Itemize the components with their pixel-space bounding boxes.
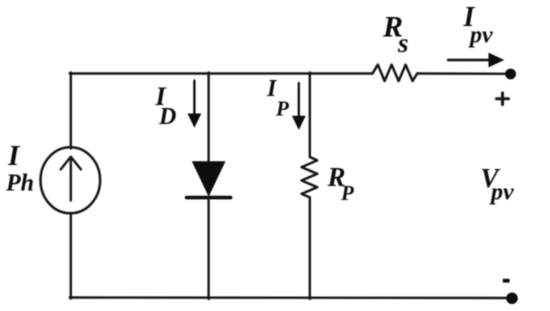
current arrow IP	[292, 83, 306, 130]
wire: Rp branch to bottom rail	[309, 197, 311, 299]
label - (negative polarity)	[503, 279, 510, 283]
wire: Rp branch from top rail	[309, 72, 311, 157]
diode D cathode bar	[187, 196, 231, 200]
label Vpv	[481, 163, 515, 205]
svg-text:pv: pv	[468, 23, 493, 49]
svg-text:D: D	[158, 104, 176, 130]
svg-text:s: s	[397, 28, 409, 58]
svg-text:Ph: Ph	[5, 171, 34, 197]
wire: diode branch from top rail	[207, 72, 209, 163]
node: negative output terminal	[506, 293, 518, 305]
wire: diode branch to bottom rail	[207, 198, 209, 299]
node: positive output terminal	[505, 69, 516, 80]
svg-text:pv: pv	[489, 179, 514, 205]
resistor Rp (vertical zigzag)	[302, 157, 318, 197]
label + (positive polarity)	[497, 93, 509, 105]
wire: Rs to positive terminal	[417, 72, 507, 75]
wire: left rail top (top-left corner down to current source)	[70, 72, 72, 148]
diode D (anode triangle)	[192, 161, 226, 197]
label ID	[155, 82, 177, 130]
current source IPh	[41, 147, 101, 213]
resistor Rs	[373, 65, 418, 81]
current arrow ID	[188, 81, 202, 128]
label Ipv	[463, 2, 494, 49]
label IP	[266, 76, 289, 121]
label Rs	[382, 11, 409, 59]
wire: current source to bottom-left corner	[70, 213, 72, 299]
current arrow Ipv	[448, 53, 504, 68]
svg-text:P: P	[340, 181, 354, 205]
label Rp	[327, 162, 355, 205]
label IPh	[5, 140, 34, 197]
wire: bottom rail	[70, 296, 508, 299]
wire: top rail from left corner to Rs	[70, 72, 373, 74]
svg-text:I: I	[7, 140, 21, 172]
svg-text:P: P	[275, 97, 289, 121]
